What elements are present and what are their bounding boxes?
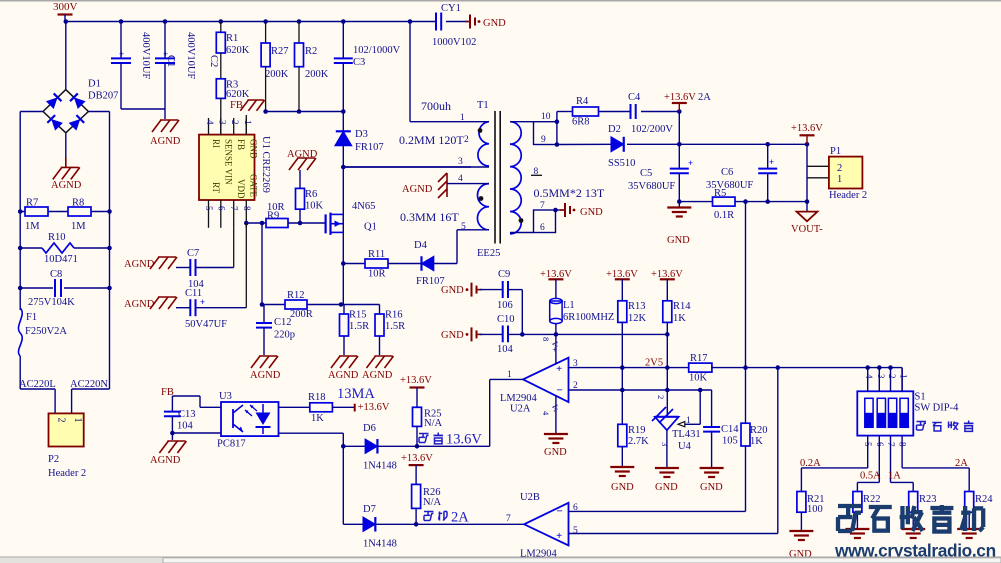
svg-text:R4: R4 [576,96,589,107]
svg-text:SENSE VIN: SENSE VIN [224,139,234,185]
svg-text:105: 105 [722,436,738,447]
svg-text:U2A: U2A [510,404,531,415]
svg-text:U3: U3 [219,391,232,402]
svg-text:C5: C5 [640,168,652,179]
svg-text:T1: T1 [477,100,489,111]
svg-text:GND: GND [655,482,678,493]
svg-text:R9: R9 [267,211,279,222]
svg-text:7: 7 [540,201,545,211]
svg-text:SW DIP-4: SW DIP-4 [915,403,960,414]
svg-text:1.5R: 1.5R [385,321,405,332]
svg-text:200K: 200K [265,69,289,80]
svg-text:6: 6 [540,223,545,233]
svg-text:104: 104 [497,344,514,355]
svg-text:GND: GND [483,18,506,29]
svg-text:200K: 200K [305,69,329,80]
svg-text:FR107: FR107 [355,142,384,153]
svg-text:R12: R12 [287,290,305,301]
svg-text:AGND: AGND [150,455,181,466]
svg-text:104: 104 [177,421,194,432]
svg-text:R8: R8 [72,198,84,209]
svg-text:−: − [557,385,563,397]
svg-text:1: 1 [243,120,253,125]
svg-text:+13.6V: +13.6V [664,92,696,103]
svg-text:1: 1 [72,418,83,423]
svg-text:C3: C3 [353,57,365,68]
svg-text:AGND: AGND [51,180,82,191]
svg-text:+13.6V: +13.6V [358,402,390,413]
svg-text:1: 1 [837,174,842,185]
svg-text:R1: R1 [226,33,238,44]
svg-text:2: 2 [56,418,67,423]
svg-text:R27: R27 [271,46,289,57]
svg-text:3: 3 [458,157,463,167]
svg-text:+: + [556,363,562,375]
svg-text:D3: D3 [355,129,368,140]
svg-text:0.3MM 16T: 0.3MM 16T [400,210,459,224]
svg-text:8: 8 [534,167,539,177]
svg-text:3: 3 [876,374,886,379]
svg-text:D1: D1 [88,79,101,90]
svg-text:GND: GND [441,330,464,341]
svg-text:400V10UF: 400V10UF [185,32,196,79]
svg-text:AGND: AGND [124,299,155,310]
svg-text:400V10UF: 400V10UF [140,32,151,79]
svg-text:102/1000V: 102/1000V [353,45,401,56]
svg-text:4N65: 4N65 [352,201,375,212]
svg-text:P1: P1 [830,146,841,157]
svg-text:1: 1 [507,370,512,380]
svg-text:1N4148: 1N4148 [363,461,397,472]
svg-text:5: 5 [573,526,578,536]
svg-text:13.6V: 13.6V [446,432,482,448]
svg-text:Header 2: Header 2 [48,468,86,479]
svg-text:GND: GND [580,207,603,218]
svg-text:6: 6 [216,206,226,211]
svg-text:4: 4 [205,120,215,125]
svg-text:Header 2: Header 2 [829,190,867,201]
svg-text:620K: 620K [226,45,250,56]
svg-text:R19: R19 [628,425,646,436]
svg-text:1M: 1M [71,221,86,232]
svg-text:10R: 10R [368,269,386,280]
svg-text:AGND: AGND [250,370,281,381]
svg-text:8: 8 [242,206,252,211]
svg-text:−: − [557,506,563,518]
svg-text:C6: C6 [721,167,733,178]
svg-text:R20: R20 [750,425,768,436]
svg-text:VDD: VDD [236,179,246,199]
svg-text:2A: 2A [955,458,968,469]
svg-text:106: 106 [497,300,513,311]
svg-text:2: 2 [464,135,469,145]
svg-text:C2: C2 [208,55,219,67]
svg-text:1A: 1A [888,471,901,482]
svg-text:GND: GND [611,482,634,493]
svg-text:1N4148: 1N4148 [363,539,397,550]
svg-text:R15: R15 [349,310,367,321]
svg-text:2V5: 2V5 [645,358,663,369]
svg-text:300V: 300V [53,1,78,13]
svg-text:R6: R6 [305,189,317,200]
svg-text:R18: R18 [308,392,326,403]
svg-text:275V104K: 275V104K [28,297,75,308]
svg-text:6R8: 6R8 [572,117,590,128]
svg-text:2: 2 [656,395,666,399]
svg-text:C7: C7 [187,248,199,259]
svg-text:1K: 1K [750,436,763,447]
svg-text:AGND: AGND [328,370,359,381]
svg-text:RI: RI [211,139,221,148]
svg-text:GND: GND [249,139,259,159]
svg-text:DB207: DB207 [88,91,118,102]
svg-text:10K: 10K [689,373,708,384]
svg-text:GND: GND [667,235,690,246]
svg-text:10D471: 10D471 [44,254,78,265]
svg-text:10K: 10K [305,201,324,212]
svg-text:1K: 1K [311,413,324,424]
svg-text:4: 4 [864,374,874,379]
svg-text:C11: C11 [185,288,202,299]
svg-text:R16: R16 [385,310,403,321]
svg-text:1K: 1K [673,313,686,324]
svg-text:12K: 12K [628,313,647,324]
svg-text:LM2904: LM2904 [500,393,538,404]
svg-text:V+: V+ [550,341,560,352]
svg-text:AGND: AGND [124,259,155,270]
svg-text:10: 10 [541,112,551,122]
svg-text:+: + [119,49,124,59]
svg-text:220p: 220p [274,330,295,341]
svg-text:TL431: TL431 [672,429,701,440]
svg-text:C10: C10 [497,314,515,325]
svg-text:PC817: PC817 [217,439,246,450]
svg-text:AGND: AGND [150,136,181,147]
svg-text:+: + [688,158,693,168]
svg-text:2A: 2A [698,92,711,103]
svg-text:620K: 620K [226,89,250,100]
svg-text:R23: R23 [919,494,937,505]
svg-text:9: 9 [541,135,546,145]
svg-text:1: 1 [899,374,909,379]
svg-text:C9: C9 [498,269,510,280]
svg-text:1: 1 [905,418,911,430]
svg-text:2: 2 [230,120,240,125]
svg-text:D2: D2 [608,124,621,135]
svg-text:R22: R22 [863,494,881,505]
svg-text:+13.6V: +13.6V [400,375,432,386]
svg-text:SS510: SS510 [608,158,635,169]
svg-text:GND: GND [544,447,567,458]
svg-text:+: + [556,530,562,542]
svg-text:EE25: EE25 [477,248,500,259]
svg-text:AGND: AGND [287,149,318,160]
svg-text:5: 5 [204,206,214,211]
svg-text:F250V2A: F250V2A [25,326,67,337]
svg-text:D4: D4 [414,240,428,251]
svg-text:R13: R13 [628,301,646,312]
svg-text:L1: L1 [563,300,575,311]
svg-text:D6: D6 [363,423,376,434]
svg-text:C8: C8 [50,269,62,280]
svg-text:35V680UF: 35V680UF [706,180,753,191]
svg-text:3: 3 [217,120,227,125]
svg-text:U4: U4 [678,441,692,452]
svg-text:+13.6V: +13.6V [791,123,823,134]
svg-text:1.5R: 1.5R [349,321,369,332]
svg-text:7: 7 [229,206,239,211]
svg-text:CY1: CY1 [441,3,461,14]
svg-text:50V47UF: 50V47UF [185,319,227,330]
svg-text:S1: S1 [915,392,926,403]
svg-text:1: 1 [460,113,465,123]
svg-text:R17: R17 [690,353,708,364]
svg-text:GATE: GATE [249,174,259,197]
svg-text:1000V102: 1000V102 [432,37,476,48]
svg-text:C13: C13 [178,409,196,420]
svg-text:P2: P2 [48,454,59,465]
svg-text:6R100MHZ: 6R100MHZ [563,312,614,323]
svg-text:U2B: U2B [520,492,540,503]
svg-text:C4: C4 [628,92,641,103]
svg-text:N/A: N/A [424,418,443,429]
svg-text:C14: C14 [721,424,739,435]
svg-text:2.7K: 2.7K [628,436,649,447]
svg-text:AGND: AGND [362,370,393,381]
svg-text:C12: C12 [274,317,292,328]
svg-text:2: 2 [887,374,897,379]
svg-text:Q1: Q1 [364,222,377,233]
svg-text:F1: F1 [26,312,37,323]
svg-text:0.5A: 0.5A [860,471,881,482]
svg-text:0.1R: 0.1R [714,210,734,221]
svg-text:100: 100 [807,504,823,515]
svg-text:GND: GND [441,285,464,296]
svg-text:102/200V: 102/200V [631,124,673,135]
svg-text:7: 7 [506,514,511,524]
svg-text:N/A: N/A [423,497,442,508]
svg-text:AGND: AGND [402,184,433,195]
svg-text:D7: D7 [363,504,376,515]
svg-text:R11: R11 [368,249,385,260]
svg-text:8: 8 [541,337,551,341]
svg-text:R2: R2 [305,46,317,57]
svg-text:0.2MM 120T: 0.2MM 120T [399,133,464,147]
svg-text:+13.6V: +13.6V [401,453,433,464]
svg-text:GND: GND [700,482,723,493]
svg-text:R24: R24 [975,494,993,505]
svg-text:35V680UF: 35V680UF [628,181,675,192]
svg-text:700uh: 700uh [421,99,451,113]
svg-text:2: 2 [837,163,842,174]
svg-text:200R: 200R [290,309,313,320]
svg-text:R10: R10 [48,232,66,243]
svg-text:0.5MM*2 13T: 0.5MM*2 13T [534,186,605,200]
svg-text:R14: R14 [673,301,691,312]
svg-text:C1: C1 [165,55,176,67]
svg-text:U1 CRE2269: U1 CRE2269 [260,136,271,193]
svg-text:RT: RT [211,182,221,193]
svg-text:3: 3 [660,442,670,446]
svg-text:1M: 1M [25,221,40,232]
svg-text:0.2A: 0.2A [800,458,821,469]
svg-text:13MA: 13MA [337,386,375,402]
svg-text:+: + [769,157,774,167]
svg-text:VOUT-: VOUT- [791,224,823,235]
svg-text:4: 4 [458,174,463,184]
svg-text:FB: FB [236,139,246,150]
svg-text:R7: R7 [26,198,38,209]
svg-text:2A: 2A [451,510,469,526]
